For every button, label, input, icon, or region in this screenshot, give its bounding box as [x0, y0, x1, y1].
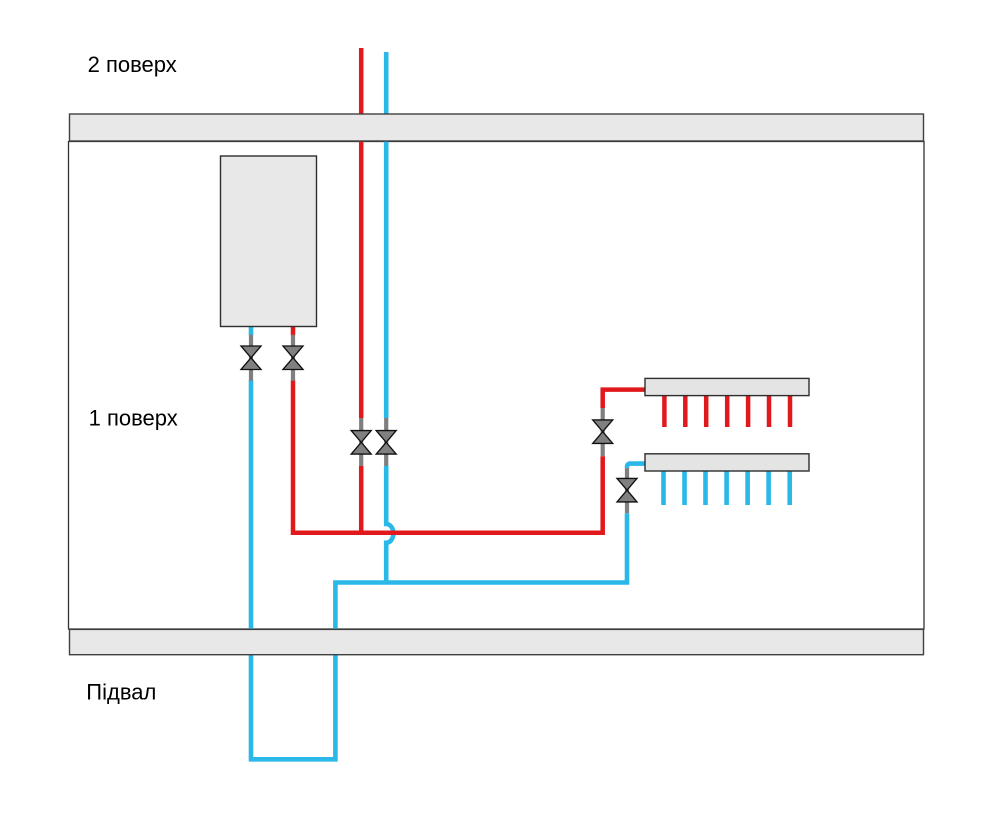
svg-text:2 поверх: 2 поверх [88, 52, 177, 77]
svg-text:Підвал: Підвал [86, 680, 156, 705]
svg-text:1 поверх: 1 поверх [89, 405, 178, 430]
